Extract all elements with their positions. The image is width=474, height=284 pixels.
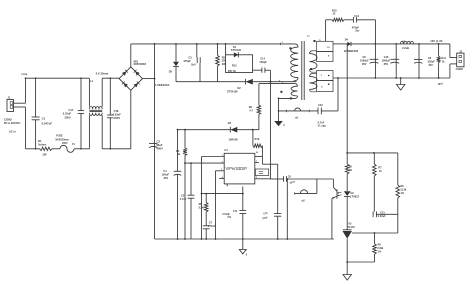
svg-text:C2: C2 xyxy=(157,139,161,143)
svg-text:2.2uH: 2.2uH xyxy=(402,46,409,50)
svg-text:470pF: 470pF xyxy=(183,59,191,63)
svg-text:470nF: 470nF xyxy=(208,224,216,228)
svg-text:Line: Line xyxy=(22,72,28,76)
svg-text:R1: R1 xyxy=(38,139,42,143)
svg-text:R4: R4 xyxy=(249,105,253,109)
svg-text:0.33uF: 0.33uF xyxy=(63,112,72,116)
svg-text:STTA106: STTA106 xyxy=(227,91,238,94)
svg-text:3A/5X20mm: 3A/5X20mm xyxy=(55,138,69,141)
svg-text:C13: C13 xyxy=(354,14,359,18)
svg-text:250V: 250V xyxy=(62,142,68,145)
svg-text:3.3K: 3.3K xyxy=(198,205,204,209)
svg-text:KBP210600: KBP210600 xyxy=(134,64,147,66)
svg-text:R5: R5 xyxy=(199,202,203,206)
svg-text:AC in: AC in xyxy=(9,130,16,134)
svg-text:250V: 250V xyxy=(114,116,120,120)
svg-text:C18: C18 xyxy=(114,109,119,113)
svg-text:1kV: 1kV xyxy=(191,63,196,67)
svg-text:12V @ 2A: 12V @ 2A xyxy=(430,39,442,43)
svg-text:2 X 35mm: 2 X 35mm xyxy=(96,71,109,75)
svg-text:STTA106: STTA106 xyxy=(231,49,242,52)
svg-text:3W: 3W xyxy=(43,153,47,157)
svg-text:C4: C4 xyxy=(163,169,167,173)
svg-text:C1: C1 xyxy=(42,117,46,121)
svg-text:1kv: 1kv xyxy=(355,30,360,33)
svg-text:gnd: gnd xyxy=(438,82,443,85)
svg-text:7: 7 xyxy=(256,161,257,163)
svg-text:1N4148: 1N4148 xyxy=(229,137,239,141)
svg-text:25V: 25V xyxy=(164,176,169,180)
svg-text:C5: C5 xyxy=(181,193,185,197)
svg-text:0.33uF: 0.33uF xyxy=(113,112,122,116)
svg-text:CON2: CON2 xyxy=(456,67,464,71)
svg-text:100uF: 100uF xyxy=(162,173,170,177)
svg-text:85 to 264VAC: 85 to 264VAC xyxy=(4,121,21,125)
svg-text:R12: R12 xyxy=(232,64,237,68)
svg-text:C3: C3 xyxy=(188,55,192,59)
svg-text:5: 5 xyxy=(256,177,257,179)
svg-text:35V: 35V xyxy=(384,63,389,66)
svg-text:0.01uF: 0.01uF xyxy=(378,215,386,218)
svg-text:C7: C7 xyxy=(209,220,213,224)
svg-text:C14: C14 xyxy=(260,57,265,61)
svg-text:C17: C17 xyxy=(69,108,74,112)
svg-text:FUSE: FUSE xyxy=(56,135,63,138)
svg-text:BYW98-200: BYW98-200 xyxy=(344,49,359,53)
svg-text:C21: C21 xyxy=(380,212,385,215)
svg-text:CON2: CON2 xyxy=(4,117,12,121)
svg-text:R13: R13 xyxy=(255,137,260,141)
svg-text:U2: U2 xyxy=(350,191,354,195)
svg-text:Y1 cap: Y1 cap xyxy=(317,124,326,128)
svg-text:2: 2 xyxy=(222,162,223,164)
svg-text:VIPer53DIP: VIPer53DIP xyxy=(225,166,247,171)
svg-text:R3: R3 xyxy=(176,149,180,153)
svg-text:4.7: 4.7 xyxy=(249,108,253,112)
svg-text:250V: 250V xyxy=(65,115,71,119)
svg-text:LTV817: LTV817 xyxy=(350,195,360,199)
svg-text:400V: 400V xyxy=(157,146,163,150)
svg-text:3: 3 xyxy=(221,169,222,171)
svg-text:C11: C11 xyxy=(233,210,238,213)
svg-text:100pF: 100pF xyxy=(259,60,267,64)
svg-text:D5: D5 xyxy=(169,69,173,73)
svg-text:C10: C10 xyxy=(318,103,323,107)
svg-text:25V: 25V xyxy=(428,64,433,67)
svg-text:0.047uF: 0.047uF xyxy=(42,121,53,125)
svg-text:R2: R2 xyxy=(222,55,226,59)
svg-text:3ohms: 3ohms xyxy=(38,143,47,147)
svg-text:68uF: 68uF xyxy=(156,143,163,147)
svg-text:BR1: BR1 xyxy=(134,61,139,63)
svg-text:TL431: TL431 xyxy=(348,226,356,229)
svg-text:1.5KE220A: 1.5KE220A xyxy=(155,83,169,87)
svg-text:1: 1 xyxy=(222,155,223,157)
svg-text:2W 1K: 2W 1K xyxy=(228,69,236,73)
svg-text:35V: 35V xyxy=(362,63,367,66)
svg-text:4.7nF: 4.7nF xyxy=(180,197,187,201)
svg-text:L1: L1 xyxy=(90,79,94,83)
